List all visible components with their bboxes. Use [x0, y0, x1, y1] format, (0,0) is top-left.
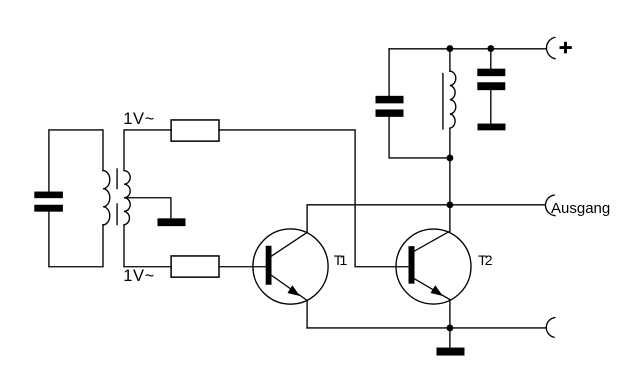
wire ground stub — [449, 328, 451, 348]
wire center tap — [125, 198, 171, 219]
transformer primary winding — [103, 171, 110, 225]
capacitor C2 plate bottom — [376, 109, 404, 116]
wire T1 emitter down — [306, 300, 308, 328]
wire inductor top lead — [449, 49, 451, 71]
svg-text:1: 1 — [340, 252, 348, 268]
ground tap — [158, 218, 186, 226]
wire left cap branch upper — [388, 49, 390, 96]
svg-text:Ausgang: Ausgang — [551, 200, 610, 217]
resistor R1 — [171, 120, 219, 141]
wire secondary bottom to R2 — [124, 225, 171, 267]
transistor T1 base bar — [266, 246, 272, 285]
node rail-inductor junction — [447, 45, 454, 52]
node rail-cap junction — [487, 45, 494, 52]
ground right cap — [478, 124, 506, 131]
node inductor bottom junction — [447, 155, 454, 162]
transistor T1 emitter arrow — [288, 285, 300, 296]
capacitor C3 plate bottom — [477, 82, 505, 90]
wire top power rail — [389, 48, 545, 50]
wire inductor bottom lead — [449, 128, 451, 158]
wire rail to Ausgang — [450, 204, 545, 206]
transistor T1 collector line — [272, 232, 308, 256]
transistor T2 emitter arrow — [431, 285, 443, 296]
transistor T1 circle — [253, 229, 328, 304]
capacitor C1 plate top — [34, 192, 63, 199]
terminal plus — [546, 37, 555, 58]
transistor T2 base bar — [409, 246, 415, 283]
resistor R2 — [171, 256, 219, 277]
terminal Ausgang — [545, 195, 554, 216]
terminal bottom — [546, 318, 554, 338]
transformer core upper — [116, 169, 118, 189]
transistor T1 emitter line — [272, 275, 308, 300]
transistor T2 emitter line — [415, 279, 450, 300]
wire left cap branch lower — [389, 117, 450, 158]
wire R2 to T1 base — [219, 266, 266, 268]
wire right cap bottom lead — [490, 90, 492, 123]
svg-text:1V~: 1V~ — [123, 267, 155, 285]
svg-text:2: 2 — [485, 252, 493, 268]
inductor L1 winding — [450, 71, 456, 128]
wire bottom rail — [307, 327, 546, 329]
capacitor C2 plate top — [376, 96, 404, 104]
wire primary loop top — [49, 130, 103, 192]
capacitor C1 plate bottom — [34, 205, 63, 212]
inductor L1 bar — [442, 74, 444, 129]
label plus sign — [560, 42, 572, 54]
capacitor C3 plate top — [477, 69, 505, 77]
wire rail T2 collector segment — [449, 205, 451, 231]
wire rail down from junction — [449, 158, 451, 205]
ground bottom — [437, 348, 465, 356]
transistor T2 circle — [396, 229, 471, 304]
transformer core lower — [116, 204, 118, 225]
wire primary loop bottom — [49, 212, 103, 267]
wire secondary top to R1 — [124, 130, 171, 171]
wire R1 to T2 base — [219, 130, 409, 267]
svg-text:1V~: 1V~ — [123, 110, 155, 128]
node collector rail junction — [447, 201, 454, 208]
node bottom junction — [447, 325, 454, 332]
transformer secondary winding — [124, 171, 130, 225]
wire T1 collector up and right to rail — [307, 205, 450, 233]
wire right cap top lead — [490, 49, 492, 69]
transistor T2 collector line — [415, 231, 450, 251]
wire T2 emitter down — [449, 300, 451, 328]
